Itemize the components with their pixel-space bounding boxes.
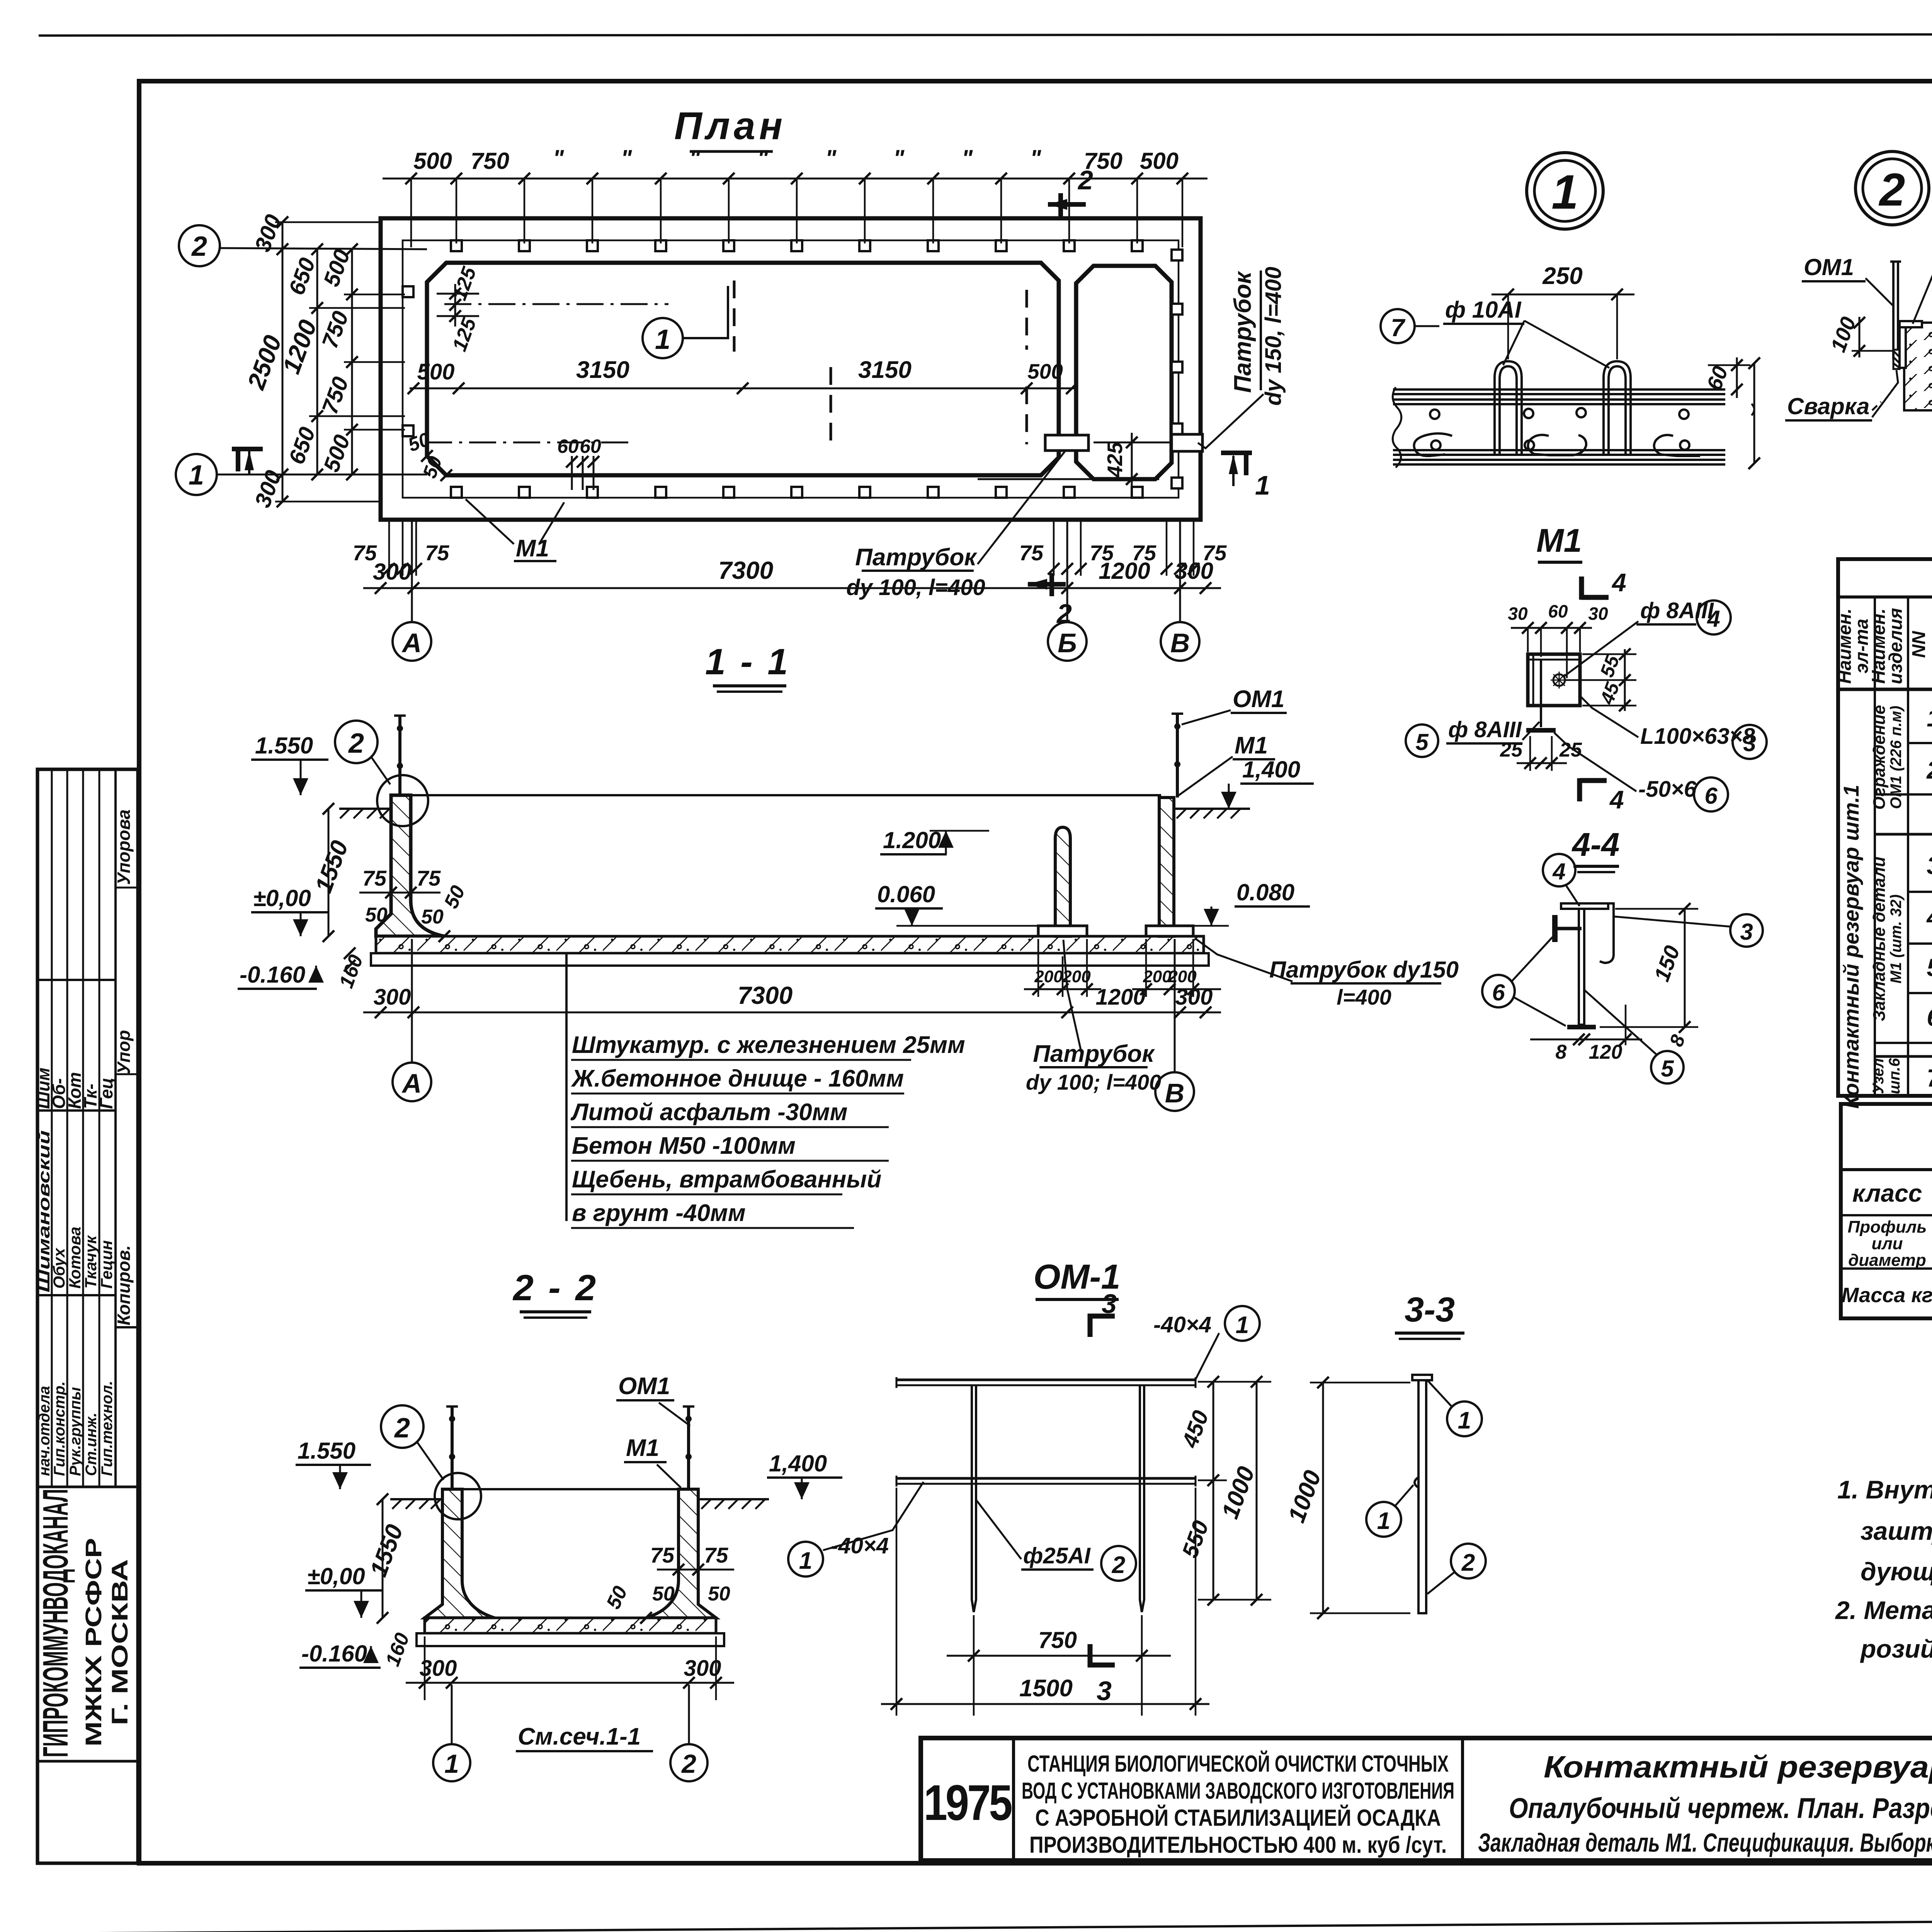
svg-text:1.550: 1.550 [255,733,313,759]
svg-text:2: 2 [1879,164,1905,216]
svg-text:6: 6 [1927,1003,1932,1031]
svg-text:750: 750 [1038,1627,1077,1653]
svg-text:3: 3 [1102,1289,1117,1319]
svg-text:300: 300 [374,985,411,1010]
node 1 cross bars [1430,408,1689,450]
plan interior dim line 500-3150-3150-500 [410,388,1074,389]
svg-text:2 - 2: 2 - 2 [512,1267,598,1308]
svg-text:4: 4 [1707,606,1720,632]
node 1 callout 7 [1381,309,1415,343]
svg-text:": " [621,145,633,171]
svg-text:300: 300 [373,559,412,585]
svg-text:": " [553,145,565,171]
3-3 dim 1000 [1322,1383,1324,1613]
svg-text:": " [962,145,973,171]
svg-text:2: 2 [1077,165,1093,195]
left column logo band divider [37,1486,138,1488]
spec row 4 [1926,903,1932,931]
svg-text:75: 75 [417,866,441,890]
detail2 weld [1893,351,1900,368]
svg-text:Рук.группы: Рук.группы [67,1387,84,1476]
svg-text:СТАНЦИЯ БИОЛОГИЧЕСКОЙ ОЧИСТК: СТАНЦИЯ БИОЛОГИЧЕСКОЙ ОЧИСТКИ СТОЧНЫХ [1027,1751,1449,1777]
spec table column lines [1874,597,1876,1096]
1-1 dim 75 75 wall top [359,892,440,894]
svg-text:500: 500 [1140,148,1179,174]
svg-text:1: 1 [655,324,670,355]
svg-text:диаметр: диаметр [1848,1251,1926,1270]
steel summary data [1842,1281,1932,1308]
plan pipe stub dy100 at partition [1045,435,1088,451]
node 1 bottom bars [1393,450,1725,464]
svg-text:-40×4: -40×4 [1153,1312,1211,1337]
svg-text:М1: М1 [516,535,549,562]
М1 dim 30 60 30 [1511,627,1592,629]
1-1 dim 200 200 right pad [1146,939,1193,997]
node 1 left break line [1393,387,1401,468]
svg-text:заштукатурить · цементным: заштукатурить · цементным раствором с по… [1861,1517,1932,1545]
svg-text:См.сеч.1-1: См.сеч.1-1 [518,1723,641,1750]
title block [921,1738,1932,1861]
svg-text:1975: 1975 [924,1774,1012,1831]
svg-text:±0,00: ±0,00 [253,885,311,911]
spec row 2 [1926,756,1932,784]
2-2 floor underlayer [417,1633,724,1646]
svg-text:В: В [1165,1078,1185,1108]
svg-text:750: 750 [471,148,509,174]
left column signatures [33,810,134,1325]
svg-text:60: 60 [1548,601,1568,621]
node 1 dim 250 [1492,294,1634,296]
svg-text:25: 25 [1500,739,1523,761]
spec row 7 [1927,1064,1932,1092]
2-2 dim 75 75 right wall [657,1569,734,1571]
left column job titles [36,1381,116,1476]
svg-text:Узел: Узел [1870,1058,1887,1094]
plan dashed centerline near partition [1026,290,1028,350]
ОМ-1 label -40x4 left [788,1542,823,1577]
svg-text:7300: 7300 [738,981,793,1009]
svg-text:2: 2 [1112,1552,1125,1578]
svg-text:75: 75 [650,1543,675,1567]
spec row 3 [1927,852,1932,879]
plan chamber 2 outline [1076,266,1172,479]
svg-text:Гец: Гец [96,1078,116,1109]
svg-text:L100×63×8: L100×63×8 [1640,724,1755,749]
1-1 ground line left [339,808,391,810]
svg-text:1200: 1200 [1095,985,1145,1010]
3-3 callout 1 lower [1366,1502,1401,1537]
outer paper border top line [39,34,1932,36]
svg-text:1,400: 1,400 [1242,757,1300,782]
sheet title [1478,1750,1932,1857]
svg-text:3150: 3150 [858,357,912,383]
svg-text:2: 2 [1926,756,1932,784]
svg-text:1: 1 [444,1749,459,1779]
svg-text:Гецин: Гецин [97,1240,116,1289]
left column row dividers [37,979,116,981]
ОМ-1 left post [972,1385,976,1612]
svg-text:Патрубок: Патрубок [855,544,977,571]
svg-text:7: 7 [1927,1064,1932,1092]
svg-text:425: 425 [1103,442,1127,478]
spec headers rotated [1835,605,1932,684]
svg-text:позиции: позиции [1929,605,1932,684]
svg-text:Копиров.: Копиров. [114,1245,134,1325]
2-2 floor slab [425,1618,716,1633]
svg-text:ф25АI: ф25АI [1023,1543,1091,1568]
1-1 left wall [376,795,444,936]
svg-text:Штукатур. с железнением 25мм: Штукатур. с железнением 25мм [572,1032,965,1058]
ОМ-1 dim 750 [947,1655,1171,1657]
1-1 partition base pad [1038,926,1087,936]
svg-text:МЖКХ РСФСР: МЖКХ РСФСР [81,1538,106,1747]
М1 section mark 4 top [1579,577,1584,600]
svg-text:6: 6 [1492,980,1505,1005]
svg-text:4-4: 4-4 [1571,827,1620,863]
svg-text:Патрубок: Патрубок [1230,271,1256,393]
svg-text:30: 30 [1508,604,1528,624]
svg-text:200: 200 [1034,967,1063,986]
svg-text:3-3: 3-3 [1405,1291,1455,1329]
plan tie squares left wall [403,286,413,297]
svg-text:75: 75 [704,1543,728,1567]
1-1 ground line right [1174,808,1250,810]
svg-text:Обух: Обух [50,1248,68,1289]
svg-text:300: 300 [420,1656,457,1681]
spec row 6 [1927,1003,1932,1031]
svg-text:2. Металлические изделия: 2. Металлические изделия должны иметь ан… [1835,1596,1932,1624]
detail2 ОМ1 post [1892,262,1895,359]
svg-text:1: 1 [1255,470,1270,500]
svg-text:Ограждение: Ограждение [1870,705,1889,810]
svg-text:шп.6: шп.6 [1886,1058,1903,1094]
left signature column [37,769,138,1863]
view label circle 2 [1855,151,1929,225]
svg-text:Контактный резервуар шт.1: Контактный резервуар шт.1 [1839,785,1863,1109]
svg-text:Щебень, втрамбованный: Щебень, втрамбованный [572,1166,881,1193]
svg-text:Закладная деталь М1. Специфик: Закладная деталь М1. Спецификация. Выбор… [1478,1828,1932,1857]
svg-text:М1: М1 [626,1435,659,1461]
plan pipe stub dy150 at right wall [1172,434,1202,451]
4-4 top flange [1561,903,1608,909]
svg-text:1: 1 [1551,165,1578,219]
title block dividers [1012,1738,1015,1861]
svg-text:75: 75 [362,866,387,890]
svg-text:5: 5 [1927,954,1932,981]
plan section mark 1 left [232,447,263,451]
М1 anchor rod [1540,660,1542,727]
notes text [1835,1475,1932,1663]
svg-text:5: 5 [1415,729,1429,755]
4-4 rod with T head [1552,915,1558,942]
svg-text:Литой асфальт -30мм: Литой асфальт -30мм [570,1099,848,1126]
2-2 ground left [390,1498,442,1500]
1-1 detail callout 2 [335,721,378,763]
steel summary frame [1841,1104,1932,1318]
svg-text:3: 3 [1740,919,1753,945]
svg-text:50: 50 [365,904,388,926]
svg-text:нач.отдела: нач.отдела [36,1386,53,1476]
node 1 dim 60 [1736,357,1738,398]
plan formwork tie squares top row [451,240,1143,251]
svg-text:1.550: 1.550 [298,1438,355,1464]
1-1 floor make-up leader [565,953,568,1221]
1-1 right wall [1159,798,1174,936]
svg-text:dy 150, l=400: dy 150, l=400 [1261,267,1286,406]
plan section mark 2 top [1048,202,1086,207]
plan bottom 75 75 dims left [389,522,416,576]
svg-text:±0,00: ±0,00 [307,1563,365,1589]
svg-text:dy 100; l=400: dy 100; l=400 [1026,1070,1161,1094]
svg-text:2: 2 [191,231,207,262]
svg-text:Патрубок: Патрубок [1033,1041,1155,1067]
svg-text:7: 7 [1391,314,1406,342]
node 1 top bars [1393,389,1725,404]
svg-text:План: План [674,104,786,148]
plan bottom main dim line [363,587,1221,589]
ОМ-1 top rail [896,1379,1196,1381]
plan dashed centerline mid [733,281,736,352]
plan formwork tie squares bottom row [451,487,1143,498]
4-4 bottom T foot [1567,1025,1596,1029]
outer paper border bottom line [35,1917,1932,1932]
ОМ-1 section mark 3 top [1088,1314,1093,1337]
svg-text:3: 3 [1097,1676,1112,1706]
4-4 callout 3 [1730,914,1763,947]
institute logo text [36,1489,133,1757]
svg-text:2: 2 [1461,1549,1475,1576]
1-1 floor make-up list [570,1032,965,1226]
svg-text:50: 50 [652,1583,675,1605]
4-4 callout 5 [1651,1051,1684,1083]
svg-text:Упорова: Упорова [114,810,134,885]
plan axis bubbles А Б В [411,520,413,622]
spec row 5 [1927,954,1932,983]
svg-text:ПРОИЗВОДИТЕЛЬНОСТЬЮ 400 м. ку: ПРОИЗВОДИТЕЛЬНОСТЬЮ 400 м. куб /сут. [1029,1832,1447,1858]
3-3 callout 1 upper [1447,1401,1482,1436]
3-3 lug [1415,1477,1418,1488]
svg-text:300: 300 [1175,985,1213,1010]
4-4 dims 8 and 120 bottom [1530,1039,1642,1041]
svg-text:1 - 1: 1 - 1 [705,641,790,682]
svg-text:ВОД С УСТАНОВКАМИ ЗАВОДСКОГО И: ВОД С УСТАНОВКАМИ ЗАВОДСКОГО ИЗГОТОВЛЕНИ… [1022,1778,1454,1804]
svg-text:0.060: 0.060 [877,881,935,907]
ОМ-1 dim 1500 [881,1703,1209,1705]
svg-text:ОМ1: ОМ1 [618,1373,670,1400]
svg-text:1: 1 [799,1548,812,1574]
plan dim 425 at chamber 2 [1131,433,1133,489]
svg-text:Упор: Упор [114,1030,134,1074]
М1 label ф8АIII circle 5 [1406,724,1438,757]
4-4 callout 4 [1543,854,1575,886]
svg-text:ОМ1 (226 п.м): ОМ1 (226 п.м) [1888,706,1905,809]
plan axis circle 1 [176,454,217,495]
svg-text:25: 25 [1559,739,1582,761]
svg-text:Ст.инж.: Ст.инж. [83,1413,100,1476]
node 1 hairpin left [1495,361,1522,456]
2-2 left railing post [451,1406,454,1489]
svg-text:1. Внутренние поверхности: 1. Внутренние поверхности контактного ре… [1837,1475,1932,1504]
svg-text:0.080: 0.080 [1236,879,1294,905]
svg-text:250: 250 [1542,263,1582,289]
plan detail callout 1 [643,318,683,358]
svg-text:дующим железнением общим: дующим железнением общим слоем 25 мм. [1861,1557,1932,1586]
svg-text:Масса кг: Масса кг [1842,1284,1932,1307]
svg-text:3150: 3150 [576,357,629,383]
М1 section mark 4 bottom [1577,778,1582,801]
1-1 axis В bubble [1174,939,1176,1072]
svg-text:или: или [1871,1234,1903,1253]
1-1 right wall base pad [1146,926,1193,936]
3-3 callout 2 [1451,1544,1486,1578]
3-3 bar [1418,1380,1426,1613]
plan left dimension chains [282,222,284,502]
ОМ-1 right post [1140,1385,1144,1612]
1-1 tank top edge line [410,794,1161,796]
svg-text:1: 1 [1236,1312,1249,1338]
svg-text:М1: М1 [1235,732,1268,759]
svg-text:Б: Б [1058,628,1077,658]
svg-text:200: 200 [1168,967,1197,986]
svg-text:75: 75 [1019,541,1044,565]
svg-text:30: 30 [1588,604,1608,624]
svg-text:3: 3 [1743,730,1756,756]
svg-text:-0.160: -0.160 [301,1641,367,1667]
2-2 axis bubble 1 [451,1685,453,1745]
detail2 concrete corner [1904,323,1932,410]
left column names [35,1130,116,1293]
1-1 dim 1550 [328,809,330,936]
svg-text:l=400: l=400 [1337,985,1391,1009]
plan lower centerline left [425,442,634,444]
left column outline [37,769,138,1863]
plan top chain labels [413,145,1179,174]
svg-text:4: 4 [1609,785,1624,814]
spec table frame [1838,559,1932,1096]
svg-text:2: 2 [394,1413,410,1444]
1-1 dim 200 200 partition pad [1038,939,1087,997]
svg-text:75: 75 [425,541,449,565]
2-2 detail callout 2 [381,1405,423,1448]
spec row 1 [1927,704,1932,732]
svg-text:": " [825,145,837,171]
svg-text:М1: М1 [1536,522,1582,559]
1-1 bottom dim line [363,1012,1221,1014]
detail2 М1 angle [1900,321,1922,327]
spec row lines [1908,742,1932,744]
plan chamber 1 outline [427,263,1059,475]
plan bottom 75 75 dims partition [1054,522,1081,576]
svg-text:": " [893,145,905,171]
svg-text:Гип.констр.: Гип.констр. [51,1381,68,1476]
title block outline [921,1738,1932,1861]
svg-text:Сварка: Сварка [1787,393,1869,419]
svg-text:-0.160: -0.160 [240,962,305,988]
svg-text:8: 8 [1556,1041,1567,1063]
svg-text:С АЭРОБНОЙ СТАБИЛИЗАЦИЕЙ: С АЭРОБНОЙ СТАБИЛИЗАЦИЕЙ ОСАДКА [1035,1805,1441,1831]
ОМ-1 section mark 3 bottom [1088,1644,1093,1667]
svg-text:1: 1 [1458,1407,1471,1434]
svg-text:ОМ1: ОМ1 [1233,686,1284,713]
svg-text:4: 4 [1611,568,1626,597]
svg-text:Опалубочный чертеж. План. Р: Опалубочный чертеж. План. Разрезы. [1509,1792,1932,1824]
detail2 dim 100 [1859,317,1861,357]
svg-text:50: 50 [421,906,444,928]
svg-text:": " [689,145,701,171]
svg-text:Бетон М50 -100мм: Бетон М50 -100мм [572,1133,796,1159]
svg-text:60: 60 [580,435,601,457]
svg-text:dy 100, l=400: dy 100, l=400 [846,575,985,600]
svg-text:1: 1 [1927,704,1932,732]
svg-text:NN: NN [1909,631,1929,658]
svg-text:1: 1 [1377,1508,1390,1534]
svg-text:Профиль: Профиль [1848,1218,1927,1236]
svg-text:А: А [401,1068,422,1099]
svg-text:1500: 1500 [1019,1675,1073,1702]
node 1 bottom hooks [1414,434,1452,456]
svg-text:ф 10АI: ф 10АI [1445,297,1522,323]
М1 dim 25 25 [1517,762,1567,764]
svg-text:": " [1030,145,1042,171]
svg-text:М1 (шт. 32): М1 (шт. 32) [1888,895,1905,984]
2-2 dim 1550 [382,1499,384,1618]
svg-text:Ткачук: Ткачук [82,1235,100,1289]
svg-text:50: 50 [708,1583,730,1605]
project description [1022,1751,1454,1858]
svg-text:200: 200 [1143,967,1172,986]
plan dim 60 60 [571,456,573,490]
svg-text:1200: 1200 [1099,558,1150,584]
1-1 partition wall [1055,827,1070,936]
svg-text:2: 2 [681,1749,696,1779]
4-4 callout 6 [1482,975,1515,1007]
plan wall inner formwork line [403,240,1179,498]
svg-text:Котова: Котова [66,1227,84,1289]
svg-text:розийное покрытие ( ст. пояс: розийное покрытие ( ст. пояснительную за… [1860,1634,1932,1663]
svg-text:Ж.бетонное днище - 160мм: Ж.бетонное днище - 160мм [571,1065,904,1092]
plan small dim 125/125 [454,284,456,327]
svg-text:2: 2 [348,728,364,759]
node 1 hairpin right [1604,361,1631,456]
svg-text:Закладные детали: Закладные детали [1870,857,1889,1021]
svg-text:120: 120 [1589,1041,1622,1063]
svg-text:500: 500 [413,148,452,174]
svg-text:А: А [401,628,422,658]
svg-text:Гип.технол.: Гип.технол. [99,1381,116,1476]
plan top dimension chain [383,178,1207,180]
svg-text:60: 60 [557,435,579,457]
svg-text:7300: 7300 [718,556,773,584]
1-1 right railing post ОМ1 [1176,714,1179,798]
svg-text:4: 4 [1552,859,1565,884]
2-2 right railing post [687,1406,690,1489]
svg-text:1: 1 [189,460,204,491]
svg-text:Патрубок dy150: Патрубок dy150 [1269,957,1459,983]
svg-text:ГИПРОКОММУНВОДОКАНАЛ: ГИПРОКОММУНВОДОКАНАЛ [36,1489,75,1757]
svg-text:5: 5 [1661,1056,1674,1082]
2-2 left wall [425,1489,495,1618]
2-2 right wall [646,1489,716,1618]
svg-text:": " [757,145,769,171]
svg-text:класс: класс [1852,1179,1922,1207]
svg-text:ОМ1: ОМ1 [1804,254,1854,280]
svg-text:1,400: 1,400 [769,1451,827,1476]
plan section mark 1 right [1221,451,1252,455]
plan bottom 75 75 dims right [1167,522,1194,576]
4-4 dim 150 [1684,909,1686,1027]
plan section mark 2 bottom [1028,582,1066,587]
2-2 tank top edge [462,1488,679,1490]
